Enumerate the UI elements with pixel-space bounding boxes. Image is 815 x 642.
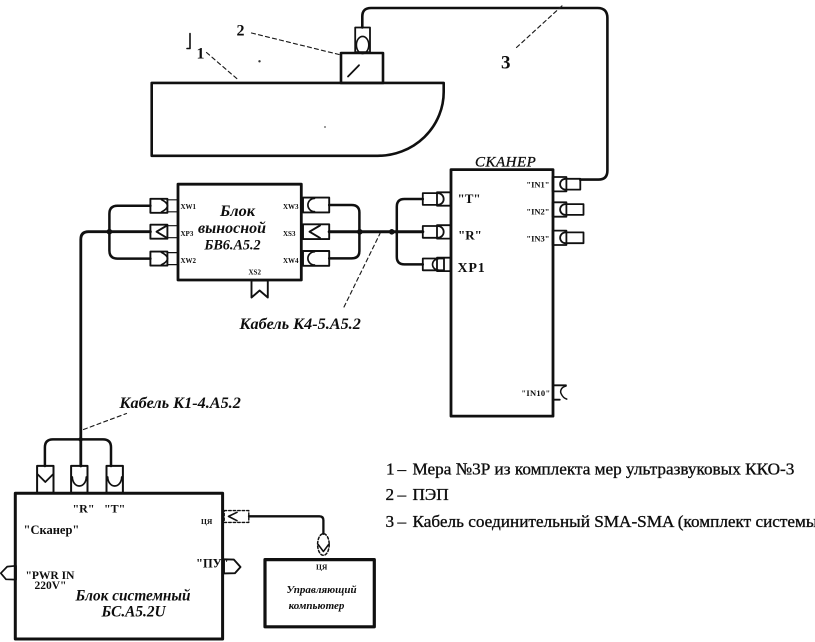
svg-text:ЦЯ: ЦЯ: [316, 563, 328, 572]
svg-text:"IN10": "IN10": [521, 388, 550, 398]
svg-text:XW1: XW1: [181, 203, 197, 211]
svg-text:БС.А5.2U: БС.А5.2U: [100, 604, 166, 621]
svg-text:ХР3: ХР3: [181, 230, 194, 238]
svg-text:XS2: XS2: [249, 269, 262, 277]
svg-text:3: 3: [501, 53, 511, 74]
svg-text:"R": "R": [73, 501, 95, 515]
svg-text:Блок системный: Блок системный: [74, 588, 190, 605]
svg-text:СКАНЕР: СКАНЕР: [475, 155, 536, 171]
svg-text:1–Мера №3Р из комплекта мер ул: 1–Мера №3Р из комплекта мер ультразвуков…: [386, 459, 794, 478]
svg-text:"R": "R": [458, 228, 482, 243]
svg-text:1: 1: [197, 45, 205, 62]
svg-text:компьютер: компьютер: [289, 600, 345, 612]
svg-text:"IN3": "IN3": [526, 234, 549, 244]
svg-text:"Т": "Т": [458, 191, 481, 206]
svg-text:XS3: XS3: [283, 230, 296, 238]
svg-text:БВ6.А5.2: БВ6.А5.2: [203, 237, 260, 253]
svg-text:"Сканер": "Сканер": [24, 523, 80, 537]
svg-text:3–Кабель соединительный SMA-SM: 3–Кабель соединительный SMA-SMA (комплек…: [386, 512, 815, 531]
svg-text:Управляющий: Управляющий: [286, 584, 356, 596]
svg-text:Блок: Блок: [219, 201, 256, 220]
svg-text:"IN1": "IN1": [526, 180, 549, 190]
svg-text:XW2: XW2: [181, 257, 197, 265]
svg-text:XW3: XW3: [283, 203, 299, 211]
svg-text:2–ПЭП: 2–ПЭП: [386, 485, 449, 504]
svg-text:ХР1: ХР1: [458, 261, 486, 276]
svg-text:Кабель К1-4.А5.2: Кабель К1-4.А5.2: [119, 394, 241, 412]
svg-text:2: 2: [237, 23, 245, 40]
svg-text:ЦЯ: ЦЯ: [201, 517, 213, 526]
svg-text:"ПУ": "ПУ": [196, 557, 229, 571]
svg-text:XW4: XW4: [283, 257, 299, 265]
svg-text:220V": 220V": [35, 580, 67, 592]
svg-text:"Т": "Т": [104, 501, 125, 515]
svg-text:"IN2": "IN2": [526, 207, 549, 217]
svg-text:выносной: выносной: [198, 220, 266, 237]
svg-text:Кабель К4-5.А5.2: Кабель К4-5.А5.2: [239, 315, 361, 333]
